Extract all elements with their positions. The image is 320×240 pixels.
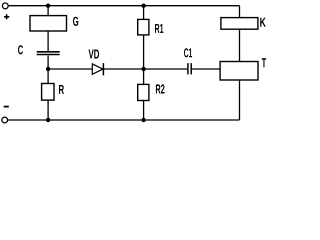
wire node A to R [47,69,49,84]
node bottom G column [46,118,50,122]
wire node B to C1 [144,68,188,70]
resistor R1 [138,19,149,35]
wire R2 to bottom rail [143,101,145,121]
label C1 [184,48,192,57]
label T [262,58,266,67]
wire node B to R2 [143,69,145,84]
label R1 [155,24,163,33]
diode VD [92,63,103,75]
resistor R [42,84,54,101]
wire C1 to T [192,68,220,70]
capacitor C [37,52,60,55]
node junction top R1 column [141,3,145,7]
generator G [30,16,67,31]
node B (R1/R2/wire junction) [141,67,145,71]
label VD [89,50,100,59]
node bottom R2 column [141,118,145,122]
capacitor C1 [188,63,191,74]
label K [260,18,266,27]
wire rail to G [47,6,49,16]
label R [59,85,64,94]
relay coil K [221,18,258,30]
label R2 [156,84,165,93]
wire T to bottom rail [239,80,241,120]
wire G to C [47,31,49,51]
label + [4,14,9,19]
wire diode to node B [103,68,143,70]
resistor R2 [138,84,149,100]
wire node A to diode [48,68,92,70]
label C [18,45,23,54]
wire right column top (rail corner to K) [239,6,241,18]
wire K to T [239,29,241,61]
label G [73,17,78,26]
wire R1 to node B [143,35,145,69]
wire rail to R1 [143,6,145,20]
device T [220,62,258,81]
label minus [4,106,9,108]
wire bottom rail [8,119,239,121]
terminal plus (top-left) [2,3,8,9]
node A (C/R/diode junction) [46,67,50,71]
terminal minus (bottom-left) [2,117,8,123]
wire C to node A [47,56,49,70]
wire R to bottom rail [47,100,49,120]
node junction top G column [46,3,50,7]
wire top rail [8,5,239,7]
